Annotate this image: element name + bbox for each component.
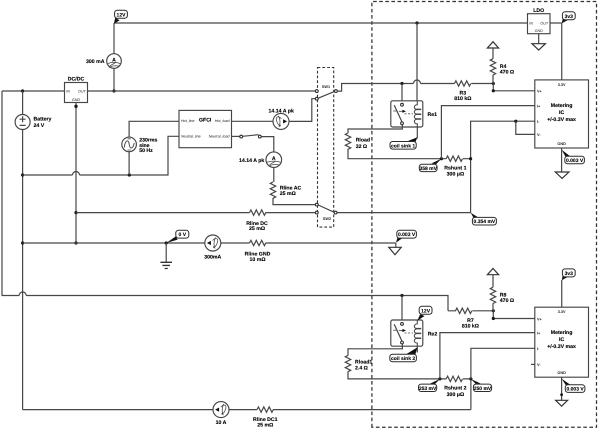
svg-text:GND: GND [72,98,81,102]
svg-text:IC: IC [559,337,564,343]
resistor Rline DC1 [253,407,278,429]
wire bottom rail [23,409,471,411]
wire Rline AC to SW2 upper terminal [273,198,316,205]
wire R7 to junction [472,310,493,312]
svg-text:300 μΩ: 300 μΩ [447,392,464,398]
wire battery negative chain [22,130,24,410]
node junction R7 R8 [492,309,495,312]
wire R3 to junction [471,83,493,85]
wire 12V rail to LDO IN [114,22,528,24]
wire LDO gnd stem [538,34,540,44]
node junction shunt2 left [438,377,441,380]
svg-text:Metering: Metering [551,103,573,109]
svg-text:Rload1: Rload1 [355,359,372,365]
resistor Rline AC [270,182,301,198]
resistor R8 [490,287,514,304]
svg-text:Battery: Battery [34,116,52,122]
switch group dashed box SW1/SW2 [318,68,334,228]
svg-text:24 V: 24 V [34,123,45,129]
node junction shunt left [440,157,443,160]
resistor R7 [448,308,479,329]
svg-text:coil sink 2: coil sink 2 [391,356,415,362]
svg-text:300 mA: 300 mA [86,59,105,65]
svg-text:0.354 mV: 0.354 mV [474,219,496,225]
wire ammeter A2 to Rline AC [273,168,275,183]
node junction battery minus y175 [21,173,24,176]
wire neutral return y175 [23,136,179,175]
wire shunt2 right down to bottom rail [463,379,471,410]
svg-text:12V: 12V [421,308,431,314]
svg-text:GND: GND [535,29,544,33]
wire R4 to junction and V+ [493,75,535,91]
label 253 mV [419,379,440,392]
svg-text:Neutral_line: Neutral_line [181,135,201,139]
wire hop over coil feed on SW1 rail [414,80,421,84]
label 358 mV [419,159,441,172]
resistor Rline DC [246,210,268,232]
label 12V net [114,10,127,23]
svg-text:Rshunt 2: Rshunt 2 [444,386,466,392]
wire test switch to ammeter A2 [261,137,274,152]
svg-text:32 Ω: 32 Ω [356,144,367,150]
label 3v3 net 2 [562,269,575,280]
wire probe to SW1 lower terminal [289,99,315,122]
node junction ammeter on rail [112,89,115,92]
svg-text:OUT: OUT [540,21,549,25]
wire metering2 gnd stem [560,377,563,400]
wire relay1 output to Rload [348,125,402,133]
LDO block [528,8,551,34]
wire Rload1 bottom to shunt2 rail [348,371,446,379]
svg-text:10 mΩ: 10 mΩ [250,257,266,263]
metering IC 2 [531,307,589,377]
node junction battery minus y243 [21,241,24,244]
node junction shunt2 right [469,377,472,380]
resistor Rshunt 1 [444,156,466,178]
svg-text:470 Ω: 470 Ω [500,70,514,76]
svg-text:25 mΩ: 25 mΩ [249,226,265,232]
svg-text:250 mV: 250 mV [474,386,492,392]
svg-text:Hot_line: Hot_line [181,119,195,123]
wire GFCI hot_load to current probe [232,120,274,122]
svg-text:0.003 V: 0.003 V [566,158,584,164]
wire 3v3 stem to metering2 [561,280,563,307]
node junction V+ corner [492,89,495,92]
svg-text:IN: IN [529,21,533,25]
wire hop over battery line [19,292,26,296]
wire battery positive stem [22,91,24,114]
node junction R3 R4 [492,82,495,85]
resistor R4 [490,59,514,76]
wire relay1 switch feed down [401,84,403,104]
svg-text:25 mΩ: 25 mΩ [280,191,296,197]
wire metering2 Iminus to shunt2 right [471,348,535,379]
resistor Rload1 [345,355,372,371]
node junction earth tap [165,241,168,244]
svg-text:25 mΩ: 25 mΩ [257,422,273,428]
wire hop over DCDC gnd line [73,172,80,175]
svg-text:3v3: 3v3 [565,271,574,277]
current probe 14.14 A pk hot [269,109,294,130]
svg-text:Re1: Re1 [428,112,438,118]
svg-text:GND: GND [557,142,566,146]
svg-text:0 V: 0 V [179,232,187,238]
resistor Rline GND [245,240,271,262]
wire 24V rail battery to DC/DC IN [2,90,65,92]
svg-text:10 A: 10 A [216,420,227,426]
wire relay1 coil bottom [416,127,418,139]
svg-text:SW1: SW1 [322,85,330,89]
wire relay2 coil top to 12V [416,319,418,322]
ground metering1 [555,172,569,178]
svg-text:LDO: LDO [533,8,544,14]
svg-text:coil sink 1: coil sink 1 [391,143,415,149]
wire R8 to junction and V+2 [493,303,535,318]
relay Re2 [391,320,438,346]
wire metering2 Iplus to shunt2 left [440,333,535,379]
resistor Rshunt 2 [444,376,466,398]
wire relay2 coil bottom [416,346,418,352]
node junction DCDC gnd on ground rail [74,241,77,244]
node junction shunt right [469,157,472,160]
wire ground rail 0V [23,242,396,244]
switch SW1 [315,85,337,100]
wire metering1 Iplus to shunt left [441,106,534,159]
power arrow 3.3V supply 1 [487,42,498,59]
enclosure dashed box [372,2,597,428]
svg-text:50 Hz: 50 Hz [139,148,153,154]
svg-text:Hot_load: Hot_load [215,119,231,123]
label 0.003 V metering1 [562,150,585,164]
power arrow 3.3V supply 2 [487,268,498,287]
svg-text:3.3V: 3.3V [558,310,566,314]
current probe 10 A [213,402,229,427]
label 0.003 V on ground rail [396,230,417,243]
svg-text:2.4 Ω: 2.4 Ω [355,366,368,372]
node junction AC source bottom [128,173,131,176]
ammeter A2 14.14 A pk [239,152,282,168]
label 3v3 net [562,12,575,24]
svg-text:Rload: Rload [356,138,370,144]
label 12V relay2 [417,306,432,320]
label 0.003 V metering2 [562,379,585,393]
relay Re1 [391,101,437,127]
ground LDO [532,44,545,50]
svg-text:3.3V: 3.3V [558,83,566,87]
node junction DCDC gnd Rline DC tap [74,211,77,214]
node junction battery positive [21,89,24,92]
resistor R3 [454,81,471,102]
label 250 mV [471,379,492,392]
switch SW2 [315,203,337,221]
node junction V+2 corner [492,317,495,320]
wire relay2 output to Rload1 [348,344,402,356]
svg-text:12V: 12V [117,12,127,18]
svg-text:OUT: OUT [78,89,87,93]
svg-text:470 Ω: 470 Ω [500,298,514,304]
wire GFCI neutral_load to test switch [232,135,240,137]
wire DC/DC OUT to SW1 [88,90,316,92]
current probe 300mA [204,235,221,261]
node junction Vminus tie [514,120,517,123]
wire SW2 output to shunt drop [337,160,471,213]
label coil sink 2 [390,347,418,362]
ground rail end symbol [389,243,401,255]
svg-text:253 mV: 253 mV [419,386,437,392]
wire shunt right to metering I- [463,121,535,159]
wire LDO OUT to 3v3 corner and metering1 top [550,23,562,80]
svg-text:Metering: Metering [551,330,573,336]
svg-text:810 kΩ: 810 kΩ [454,96,471,102]
svg-text:IC: IC [559,110,564,116]
battery source 24V [15,115,51,130]
GFCI block [179,110,232,147]
wire left rail down to lower circuit [2,91,448,311]
wire AC source top to GFCI hot_line [129,121,179,137]
ground metering2 [556,400,568,406]
neutral test switch [240,135,261,138]
svg-text:V+: V+ [537,90,543,94]
DC/DC converter block [65,77,88,103]
wire Vminus jog [516,121,535,134]
svg-text:3v3: 3v3 [565,14,574,20]
svg-text:358 mV: 358 mV [419,166,437,172]
wire 12V corner down to ammeter [113,23,115,54]
svg-text:+/-0.3V max: +/-0.3V max [547,117,576,123]
node junction relay1 coil feed on 12V rail [415,21,418,24]
wire DC/DC GND down [74,103,77,244]
wire Rline DC run to SW2 [76,212,316,214]
node junction relay1 switch feed [400,82,403,85]
svg-text:Neutral_load: Neutral_load [209,135,231,139]
svg-text:SW2: SW2 [323,217,331,221]
svg-text:810 kΩ: 810 kΩ [462,324,479,330]
ammeter A1 300 mA [86,54,121,69]
metering IC 1 [535,80,589,148]
svg-text:DC/DC: DC/DC [68,77,85,83]
wire metering1 gnd stem [561,148,563,172]
node junction relay2 feed [400,294,403,297]
svg-text:GND: GND [557,371,566,375]
wire Rload bottom to shunt rail [348,149,446,159]
wire relay2 switch feed down [401,296,403,324]
wire ammeter to 24V rail [113,68,115,91]
svg-text:0.003 V: 0.003 V [566,387,584,393]
svg-text:V+: V+ [537,317,543,321]
wire relay1 coil feed down [416,23,418,101]
svg-text:0.003 V: 0.003 V [398,232,416,238]
svg-text:300mA: 300mA [204,255,221,261]
earth ground symbol [160,243,172,269]
wire SW1 output to R3 rail [337,84,454,92]
resistor Rload 32ohm [345,133,370,150]
label 0 V [166,230,189,243]
svg-text:Re2: Re2 [428,331,438,337]
label coil sink 1 [390,137,417,149]
svg-text:14.14 A pk: 14.14 A pk [269,109,294,115]
svg-text:+/-0.3V max: +/-0.3V max [547,344,576,350]
label 0.354 mV [471,213,497,226]
wire AC source bottom stem [128,152,130,175]
AC source 230rms [122,137,158,154]
svg-text:300 μΩ: 300 μΩ [447,172,464,178]
svg-text:GFCI: GFCI [199,117,212,123]
svg-text:IN: IN [66,89,70,93]
svg-text:14.14 A pk: 14.14 A pk [239,158,264,164]
svg-text:Rshunt 1: Rshunt 1 [444,165,466,171]
